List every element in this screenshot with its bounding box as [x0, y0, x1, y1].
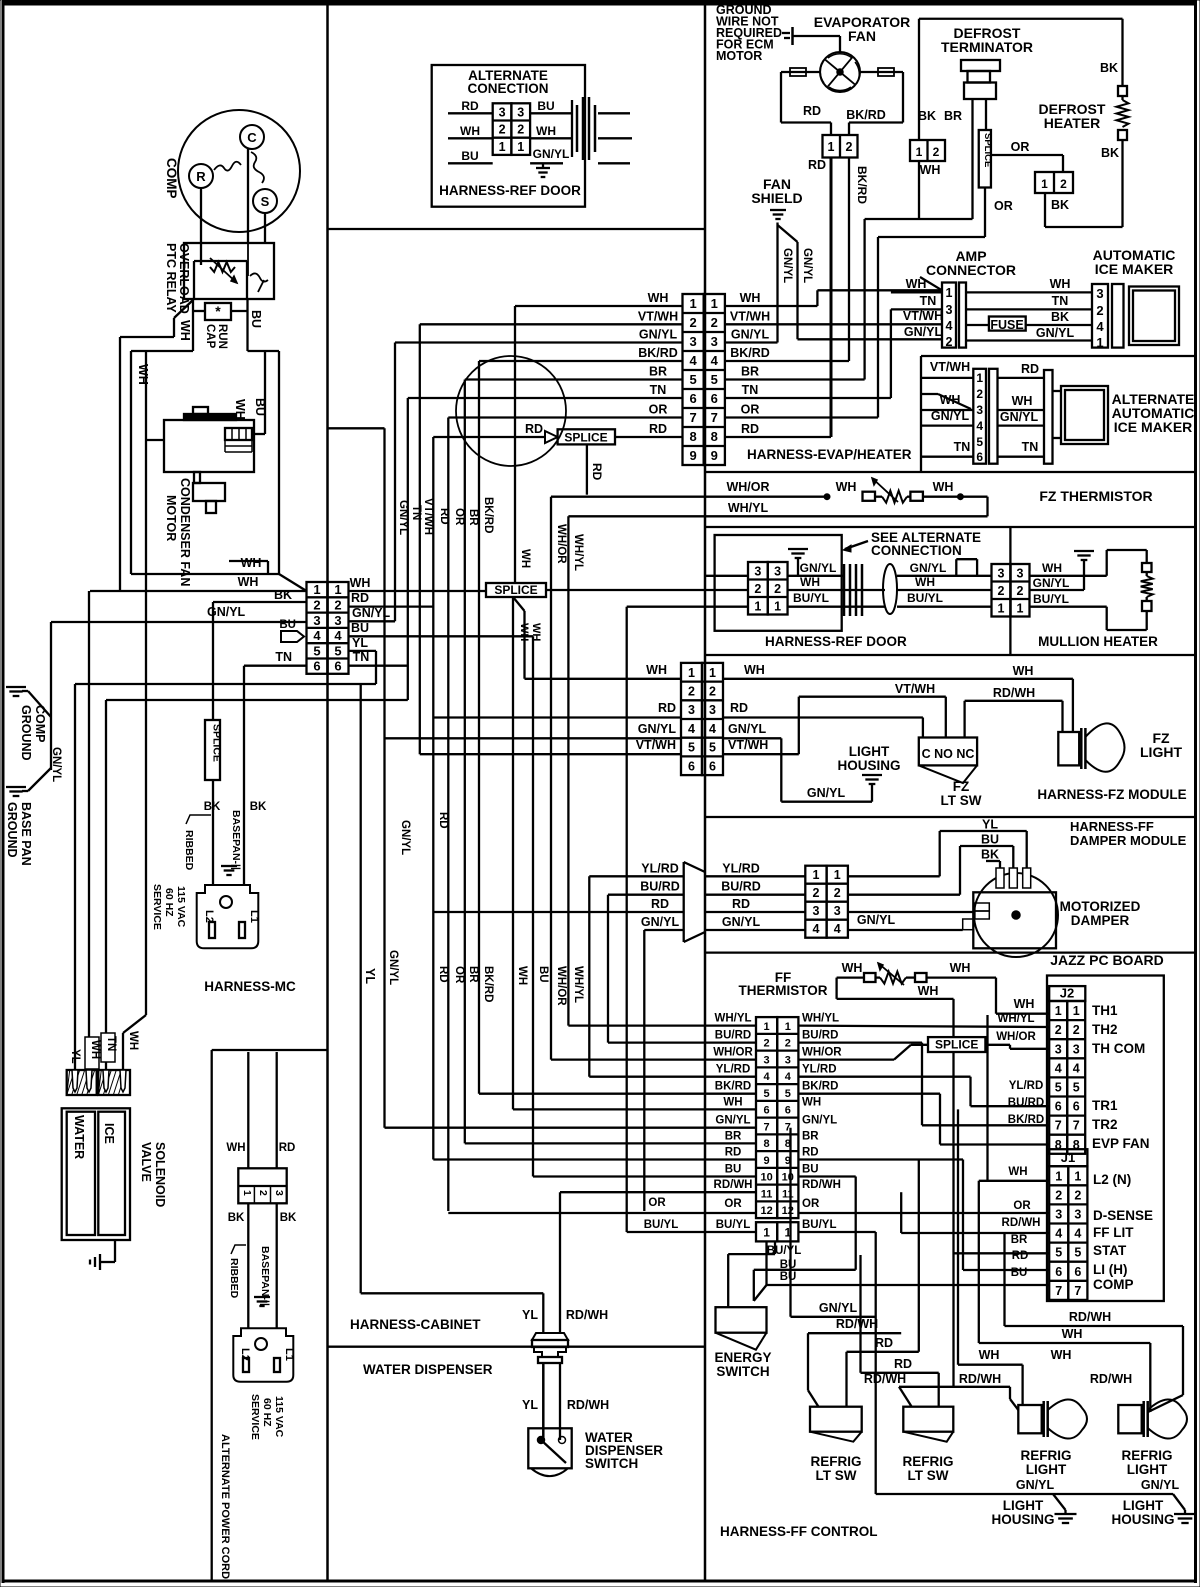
svg-text:5: 5 [1073, 1080, 1080, 1094]
svg-text:GROUND: GROUND [5, 802, 19, 858]
svg-text:BK/RD: BK/RD [846, 108, 886, 122]
svg-text:RD: RD [732, 897, 750, 911]
svg-text:DAMPER: DAMPER [1071, 913, 1130, 928]
svg-text:GN/YL: GN/YL [722, 915, 761, 929]
svg-text:CONNECTION: CONNECTION [871, 543, 962, 558]
svg-text:3: 3 [946, 303, 953, 317]
svg-text:L2: L2 [239, 1348, 251, 1361]
svg-text:7: 7 [1055, 1119, 1062, 1133]
svg-text:RD: RD [525, 422, 543, 436]
svg-text:LIGHT: LIGHT [1127, 1462, 1168, 1477]
svg-text:RD: RD [437, 966, 449, 983]
svg-text:BK/RD: BK/RD [715, 1081, 751, 1093]
svg-text:GN/YL: GN/YL [800, 561, 837, 575]
svg-text:YL: YL [522, 1398, 538, 1412]
svg-text:YL: YL [982, 818, 998, 832]
svg-text:6: 6 [709, 759, 716, 773]
svg-text:7: 7 [764, 1121, 770, 1133]
svg-text:COMP: COMP [1093, 1277, 1134, 1292]
svg-text:VT/WH: VT/WH [930, 360, 970, 374]
svg-text:1: 1 [1017, 601, 1024, 615]
svg-text:BK: BK [918, 109, 936, 123]
svg-text:GN/YL: GN/YL [801, 248, 813, 283]
svg-text:BU: BU [351, 621, 369, 635]
svg-text:MULLION HEATER: MULLION HEATER [1038, 634, 1158, 649]
svg-text:WH: WH [1013, 664, 1034, 678]
svg-text:LT SW: LT SW [816, 1468, 857, 1483]
svg-text:TN: TN [1052, 294, 1069, 308]
svg-text:2: 2 [517, 123, 524, 137]
svg-text:2: 2 [976, 387, 983, 401]
svg-text:VT/WH: VT/WH [422, 498, 434, 535]
svg-text:SWITCH: SWITCH [716, 1364, 769, 1379]
svg-text:CONECTION: CONECTION [468, 81, 549, 96]
svg-text:4: 4 [313, 628, 321, 643]
svg-text:SHIELD: SHIELD [751, 190, 802, 206]
svg-text:BK/RD: BK/RD [638, 346, 678, 360]
svg-text:5: 5 [764, 1088, 770, 1100]
svg-text:MOTOR: MOTOR [716, 49, 762, 63]
svg-text:2: 2 [933, 145, 940, 159]
svg-text:MOTORIZED: MOTORIZED [1060, 899, 1141, 914]
svg-text:WH: WH [646, 663, 667, 677]
svg-text:VT/WH: VT/WH [638, 309, 678, 323]
svg-text:BU: BU [279, 619, 296, 631]
svg-text:GN/YL: GN/YL [533, 147, 570, 161]
svg-text:GN/YL: GN/YL [1036, 326, 1075, 340]
svg-text:3: 3 [517, 105, 524, 119]
svg-text:BASEPAN-||: BASEPAN-|| [230, 810, 242, 870]
svg-text:TN: TN [954, 440, 971, 454]
svg-text:9: 9 [711, 448, 718, 463]
svg-text:RD/WH: RD/WH [802, 1179, 841, 1191]
svg-text:*: * [215, 303, 221, 319]
svg-text:LIGHT: LIGHT [1003, 1498, 1044, 1513]
svg-text:BK/RD: BK/RD [802, 1081, 838, 1093]
svg-text:3: 3 [1017, 566, 1024, 580]
svg-text:BK: BK [1101, 146, 1119, 160]
svg-text:6: 6 [785, 1105, 791, 1117]
svg-text:1: 1 [241, 1190, 253, 1196]
svg-text:TN: TN [650, 383, 667, 397]
svg-text:RD/WH: RD/WH [993, 686, 1035, 700]
svg-text:4: 4 [1055, 1061, 1062, 1075]
svg-text:GN/YL: GN/YL [1033, 576, 1070, 590]
svg-text:BU: BU [461, 149, 478, 163]
svg-text:TN: TN [105, 1036, 117, 1051]
svg-text:GN/YL: GN/YL [931, 409, 970, 423]
svg-text:FZ THERMISTOR: FZ THERMISTOR [1039, 488, 1152, 504]
svg-text:1: 1 [916, 145, 923, 159]
svg-text:3: 3 [1074, 1207, 1081, 1221]
svg-text:CONNECTOR: CONNECTOR [926, 262, 1016, 278]
svg-text:BU/YL: BU/YL [716, 1219, 751, 1231]
svg-text:8: 8 [764, 1138, 770, 1150]
svg-text:115 VAC: 115 VAC [175, 886, 187, 928]
svg-text:4: 4 [1055, 1227, 1062, 1241]
svg-text:COMP: COMP [164, 158, 179, 199]
svg-text:TR1: TR1 [1092, 1098, 1118, 1113]
svg-text:BK: BK [228, 1212, 245, 1224]
svg-text:RD: RD [803, 104, 821, 118]
svg-text:S: S [261, 194, 270, 209]
svg-text:WH/YL: WH/YL [572, 966, 584, 1003]
svg-text:4: 4 [834, 922, 841, 936]
svg-text:3: 3 [1055, 1207, 1062, 1221]
svg-text:2: 2 [688, 684, 695, 698]
svg-text:5: 5 [709, 741, 716, 755]
svg-text:BK: BK [204, 801, 221, 813]
svg-text:6: 6 [976, 450, 983, 464]
svg-text:5: 5 [334, 643, 341, 658]
svg-text:2: 2 [1074, 1188, 1081, 1202]
svg-text:BK: BK [981, 848, 999, 862]
svg-text:4: 4 [334, 628, 342, 643]
svg-text:3: 3 [834, 904, 841, 918]
svg-text:HARNESS-MC: HARNESS-MC [204, 979, 296, 994]
svg-text:BU/YL: BU/YL [802, 1219, 837, 1231]
svg-text:REFRIG: REFRIG [902, 1454, 953, 1469]
svg-text:RD: RD [875, 1336, 893, 1350]
svg-text:6: 6 [313, 659, 320, 674]
svg-text:OR: OR [724, 1198, 742, 1210]
svg-text:1: 1 [689, 296, 696, 311]
svg-text:L2 (N): L2 (N) [1093, 1172, 1131, 1187]
svg-text:COMP: COMP [33, 705, 47, 743]
svg-text:7: 7 [1055, 1284, 1062, 1298]
svg-text:BK: BK [1100, 61, 1118, 75]
svg-text:WH: WH [178, 320, 192, 341]
svg-text:BU/YL: BU/YL [793, 591, 829, 605]
svg-text:GN/YL: GN/YL [802, 1115, 837, 1127]
svg-text:2: 2 [313, 597, 320, 612]
svg-text:L2: L2 [203, 910, 215, 923]
svg-text:RD: RD [438, 508, 450, 525]
svg-text:60 HZ: 60 HZ [163, 888, 175, 917]
svg-text:RD: RD [1021, 362, 1039, 376]
svg-text:WH: WH [723, 1096, 742, 1108]
svg-text:1: 1 [976, 371, 983, 385]
svg-text:1: 1 [313, 582, 320, 597]
svg-text:BR: BR [741, 365, 759, 379]
svg-text:ICE: ICE [102, 1123, 116, 1144]
svg-text:1: 1 [517, 140, 524, 154]
svg-text:6: 6 [711, 391, 718, 406]
svg-text:VT/WH: VT/WH [903, 309, 943, 323]
svg-text:RD: RD [802, 1147, 819, 1159]
svg-text:DAMPER MODULE: DAMPER MODULE [1070, 833, 1187, 848]
svg-text:4: 4 [764, 1071, 771, 1083]
svg-text:GN/YL: GN/YL [819, 1301, 858, 1315]
svg-text:FF LIT: FF LIT [1093, 1225, 1134, 1240]
svg-text:RD: RD [437, 812, 449, 829]
svg-text:LIGHT: LIGHT [1140, 744, 1182, 760]
svg-text:3: 3 [998, 566, 1005, 580]
svg-text:TERMINATOR: TERMINATOR [941, 39, 1033, 55]
svg-text:WH/YL: WH/YL [728, 501, 769, 515]
svg-text:4: 4 [785, 1071, 792, 1083]
svg-text:6: 6 [1073, 1100, 1080, 1114]
svg-text:GN/YL: GN/YL [641, 915, 680, 929]
svg-text:WH: WH [648, 291, 669, 305]
svg-text:TN: TN [742, 383, 759, 397]
svg-text:GN/YL: GN/YL [639, 328, 678, 342]
svg-text:RD/WH: RD/WH [959, 1372, 1001, 1386]
svg-text:BU/RD: BU/RD [715, 1030, 751, 1042]
svg-text:MOTOR: MOTOR [164, 495, 178, 541]
svg-text:9: 9 [764, 1155, 770, 1167]
svg-text:2: 2 [812, 886, 819, 900]
svg-text:BU/RD: BU/RD [802, 1030, 838, 1042]
svg-text:OR: OR [453, 966, 465, 984]
svg-text:YL/RD: YL/RD [1009, 1080, 1044, 1092]
svg-text:8: 8 [711, 429, 718, 444]
svg-text:4: 4 [689, 353, 697, 368]
svg-text:1: 1 [711, 296, 718, 311]
svg-text:1: 1 [834, 868, 841, 882]
svg-text:OR: OR [649, 403, 668, 417]
svg-text:BR: BR [467, 509, 479, 526]
svg-text:3: 3 [711, 334, 718, 349]
svg-text:WH/YL: WH/YL [802, 1013, 839, 1025]
svg-text:BR: BR [649, 365, 667, 379]
svg-text:LT SW: LT SW [908, 1468, 949, 1483]
svg-text:7: 7 [689, 410, 696, 425]
svg-text:6: 6 [1055, 1100, 1062, 1114]
svg-text:WH: WH [915, 575, 935, 589]
svg-text:4: 4 [711, 353, 719, 368]
svg-text:7: 7 [1074, 1284, 1081, 1298]
svg-text:YL/RD: YL/RD [802, 1064, 837, 1076]
svg-text:GN/YL: GN/YL [638, 722, 677, 736]
svg-text:SPLICE: SPLICE [211, 724, 223, 762]
svg-text:5: 5 [785, 1088, 791, 1100]
svg-text:5: 5 [711, 372, 718, 387]
svg-text:REFRIG: REFRIG [1121, 1448, 1172, 1463]
svg-text:REFRIG: REFRIG [810, 1454, 861, 1469]
svg-text:2: 2 [785, 1038, 791, 1050]
svg-text:WH/YL: WH/YL [714, 1013, 751, 1025]
svg-text:C: C [247, 130, 257, 145]
svg-text:WH: WH [127, 1031, 139, 1050]
svg-text:RD: RD [1012, 1250, 1029, 1262]
svg-text:BK: BK [274, 588, 292, 602]
svg-text:1: 1 [1055, 1004, 1062, 1018]
svg-text:RD/WH: RD/WH [566, 1308, 608, 1322]
svg-text:BU: BU [253, 398, 267, 416]
svg-text:VT/WH: VT/WH [730, 309, 770, 323]
svg-text:6: 6 [764, 1105, 770, 1117]
svg-text:FUSE: FUSE [990, 318, 1023, 332]
svg-text:OR: OR [1013, 1200, 1031, 1212]
svg-text:6: 6 [1055, 1265, 1062, 1279]
svg-text:HARNESS-CABINET: HARNESS-CABINET [350, 1317, 481, 1332]
svg-text:60 HZ: 60 HZ [261, 1398, 273, 1427]
svg-text:2: 2 [1060, 177, 1067, 191]
svg-text:TN: TN [410, 505, 422, 520]
svg-text:BU: BU [1011, 1267, 1028, 1279]
svg-text:3: 3 [754, 564, 761, 578]
svg-text:2: 2 [689, 315, 696, 330]
svg-text:GN/YL: GN/YL [1000, 410, 1039, 424]
svg-text:WH: WH [518, 623, 530, 641]
svg-text:2: 2 [754, 582, 761, 596]
svg-text:HEATER: HEATER [1044, 115, 1101, 131]
svg-text:4: 4 [709, 722, 716, 736]
svg-text:LIGHT: LIGHT [849, 744, 890, 759]
svg-text:GN/YL: GN/YL [781, 248, 793, 283]
svg-text:WH: WH [1051, 1348, 1072, 1362]
svg-text:12: 12 [760, 1205, 772, 1217]
svg-text:1: 1 [688, 666, 695, 680]
svg-text:GN/YL: GN/YL [397, 500, 409, 535]
svg-text:2: 2 [1096, 303, 1103, 318]
svg-text:3: 3 [709, 703, 716, 717]
svg-text:GN/YL: GN/YL [807, 786, 846, 800]
svg-text:3: 3 [764, 1054, 770, 1066]
svg-text:RD/WH: RD/WH [1069, 1310, 1111, 1324]
svg-text:WH/OR: WH/OR [726, 480, 769, 494]
svg-text:10: 10 [760, 1172, 772, 1184]
svg-text:R: R [196, 169, 206, 184]
svg-text:BU: BU [537, 966, 549, 983]
svg-text:WH: WH [933, 480, 954, 494]
svg-text:TN: TN [920, 294, 937, 308]
svg-text:BK/RD: BK/RD [730, 346, 770, 360]
svg-text:WH: WH [241, 556, 262, 570]
svg-text:LT SW: LT SW [941, 793, 982, 808]
svg-text:L1: L1 [248, 910, 260, 923]
svg-text:ICE MAKER: ICE MAKER [1114, 419, 1193, 435]
svg-text:RD: RD [279, 1142, 296, 1154]
svg-text:9: 9 [689, 448, 696, 463]
svg-text:1: 1 [774, 599, 781, 613]
svg-text:BK/RD: BK/RD [482, 966, 494, 1002]
svg-text:RD/WH: RD/WH [714, 1179, 753, 1191]
svg-text:BR: BR [802, 1130, 819, 1142]
svg-text:RD/WH: RD/WH [1002, 1217, 1041, 1229]
svg-text:WH/OR: WH/OR [555, 524, 567, 564]
svg-text:FAN: FAN [848, 28, 876, 44]
svg-text:BU: BU [249, 310, 263, 328]
svg-text:BASE PAN: BASE PAN [19, 802, 33, 866]
svg-text:RD: RD [649, 422, 667, 436]
svg-text:3: 3 [785, 1054, 791, 1066]
svg-text:WH: WH [519, 549, 531, 568]
svg-text:3: 3 [273, 1190, 285, 1196]
svg-text:2: 2 [834, 886, 841, 900]
svg-text:CONDENSER FAN: CONDENSER FAN [178, 478, 192, 586]
svg-text:TR2: TR2 [1092, 1117, 1118, 1132]
svg-text:GN/YL: GN/YL [1141, 1478, 1180, 1492]
svg-text:WH: WH [920, 163, 941, 177]
svg-text:WH: WH [918, 984, 939, 998]
svg-text:BU: BU [780, 1271, 797, 1283]
svg-text:RD: RD [651, 897, 669, 911]
svg-text:BK/RD: BK/RD [482, 497, 494, 533]
svg-text:GN/YL: GN/YL [728, 722, 767, 736]
svg-text:TN: TN [1022, 440, 1039, 454]
svg-text:2: 2 [709, 684, 716, 698]
svg-text:1: 1 [1041, 177, 1048, 191]
svg-text:OR: OR [648, 1197, 666, 1209]
svg-text:WH/OR: WH/OR [713, 1047, 753, 1059]
svg-text:WH/OR: WH/OR [996, 1031, 1036, 1043]
svg-text:2: 2 [257, 1190, 269, 1196]
svg-text:OR: OR [741, 403, 760, 417]
svg-text:HOUSING: HOUSING [837, 758, 900, 773]
svg-text:6: 6 [334, 659, 341, 674]
svg-text:REFRIG: REFRIG [1020, 1448, 1071, 1463]
svg-text:D-SENSE: D-SENSE [1093, 1208, 1153, 1223]
svg-text:RIBBED: RIBBED [228, 1258, 240, 1299]
svg-text:3: 3 [774, 564, 781, 578]
svg-text:GN/YL: GN/YL [399, 820, 411, 855]
svg-text:GN/YL: GN/YL [50, 747, 62, 782]
svg-text:RD: RD [894, 1357, 912, 1371]
svg-text:BU/YL: BU/YL [644, 1219, 679, 1231]
svg-text:WH: WH [350, 576, 371, 590]
svg-text:TH2: TH2 [1092, 1022, 1118, 1037]
svg-text:WH: WH [800, 575, 820, 589]
svg-text:2: 2 [1073, 1023, 1080, 1037]
svg-text:WH: WH [238, 575, 259, 589]
svg-text:3: 3 [1096, 286, 1103, 301]
svg-text:4: 4 [1073, 1061, 1080, 1075]
svg-text:GN/YL: GN/YL [715, 1115, 750, 1127]
svg-text:RD: RD [461, 99, 479, 113]
svg-text:BR: BR [725, 1130, 742, 1142]
svg-text:2: 2 [774, 582, 781, 596]
svg-text:10: 10 [782, 1172, 794, 1184]
svg-text:2: 2 [1055, 1188, 1062, 1202]
svg-text:SPLICE: SPLICE [564, 431, 607, 445]
svg-text:WH: WH [836, 480, 857, 494]
svg-text:1: 1 [763, 1225, 770, 1239]
svg-text:7: 7 [711, 410, 718, 425]
svg-text:WH: WH [1012, 394, 1033, 408]
svg-text:5: 5 [1074, 1246, 1081, 1260]
svg-text:3: 3 [812, 904, 819, 918]
svg-text:J2: J2 [1060, 986, 1074, 1001]
svg-text:RD: RD [351, 591, 369, 605]
svg-text:HARNESS-FZ MODULE: HARNESS-FZ MODULE [1037, 787, 1186, 802]
svg-text:HARNESS-REF DOOR: HARNESS-REF DOOR [765, 634, 907, 649]
svg-text:115 VAC: 115 VAC [273, 1396, 285, 1438]
svg-text:5: 5 [1055, 1246, 1062, 1260]
svg-text:11: 11 [761, 1188, 773, 1200]
svg-text:1: 1 [1074, 1169, 1081, 1183]
svg-text:4: 4 [1074, 1227, 1081, 1241]
svg-text:BU/RD: BU/RD [640, 880, 680, 894]
svg-text:3: 3 [499, 105, 506, 119]
svg-text:2: 2 [1055, 1023, 1062, 1037]
svg-text:3: 3 [1073, 1042, 1080, 1056]
svg-text:3: 3 [334, 613, 341, 628]
svg-text:RD: RD [730, 701, 748, 715]
svg-text:ICE MAKER: ICE MAKER [1095, 261, 1174, 277]
svg-text:WH/YL: WH/YL [997, 1013, 1034, 1025]
svg-text:6: 6 [688, 759, 695, 773]
svg-text:SERVICE: SERVICE [249, 1394, 261, 1440]
svg-text:OR: OR [1011, 140, 1030, 154]
svg-text:GN/YL: GN/YL [731, 328, 770, 342]
svg-text:4: 4 [946, 319, 953, 333]
svg-text:HARNESS-EVAP/HEATER: HARNESS-EVAP/HEATER [747, 447, 912, 462]
svg-text:1: 1 [1073, 1004, 1080, 1018]
svg-text:WH: WH [740, 291, 761, 305]
svg-text:WATER: WATER [72, 1115, 86, 1159]
